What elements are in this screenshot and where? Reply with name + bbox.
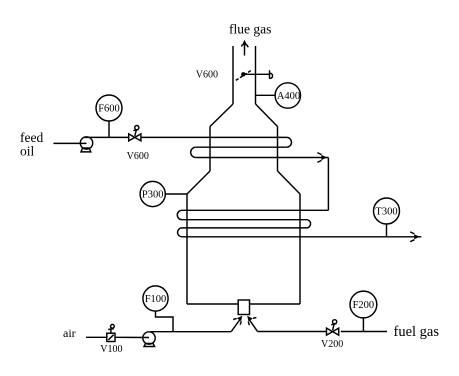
svg-text:flue gas: flue gas: [229, 22, 271, 37]
valve V600 handle: [135, 126, 139, 130]
instrument F200 stem: [362, 318, 364, 332]
flue gas arrow: [244, 42, 246, 56]
svg-text:V200: V200: [321, 339, 343, 350]
valve V600 body: [129, 134, 141, 141]
coil pass 2 left U-bend: [191, 147, 196, 157]
instrument A400 stem: [256, 94, 276, 96]
coil pass 4 left U-bend: [177, 210, 182, 219]
valve V200 handle: [333, 320, 337, 324]
damper V600 handle: [270, 70, 273, 78]
svg-text:P300: P300: [142, 190, 164, 201]
coil pass 5 right U-bend: [307, 220, 311, 228]
coil pass 3 arrow: [321, 155, 327, 160]
furnace lower shoulder left: [187, 171, 210, 194]
pump feed oil base: [81, 148, 91, 152]
blower base: [144, 344, 155, 347]
coil pass 6: [182, 227, 307, 229]
instrument A400: [275, 83, 300, 108]
air inlet wire: [86, 336, 107, 338]
blower: [143, 332, 155, 344]
damper V600 blade (dashed): [236, 71, 251, 81]
coil pass 2: [196, 146, 287, 148]
feed wire valve to coil: [141, 136, 287, 138]
svg-text:oil: oil: [20, 144, 35, 159]
feed wire pump outlet to valve V600: [84, 136, 129, 138]
svg-text:V600: V600: [196, 69, 218, 80]
damper V600 pivot dot: [241, 72, 245, 76]
svg-text:V600: V600: [127, 151, 149, 162]
instrument F100 stem: [156, 311, 174, 332]
instrument P300: [140, 181, 165, 206]
valve V600 stem: [135, 130, 137, 136]
svg-text:F100: F100: [145, 294, 167, 305]
furnace stack right wall: [255, 46, 257, 104]
instrument F600 stem: [108, 121, 110, 137]
svg-text:F600: F600: [98, 104, 120, 115]
furnace convection section left wall: [209, 127, 211, 172]
valve V200 stem: [333, 324, 335, 330]
wire crossover down: [327, 158, 329, 211]
coil pass 3: [196, 157, 329, 159]
fuel gas inlet wire: [341, 331, 387, 333]
valve V200 body: [327, 328, 339, 335]
fuel wire valve to burner: [257, 331, 326, 333]
air wire valve to blower: [115, 336, 149, 338]
valve V100 handle: [111, 324, 115, 328]
instrument F100: [143, 286, 168, 311]
furnace lower shoulder right: [278, 171, 301, 194]
furnace stack left wall: [232, 46, 234, 104]
furnace convection section right wall: [277, 127, 279, 172]
burner air arrow: [231, 320, 240, 332]
pump feed oil: [80, 137, 92, 149]
coil pass 5: [182, 219, 307, 221]
damper V600 shaft: [243, 73, 269, 75]
furnace radiant section left wall: [186, 194, 188, 304]
furnace radiant section right wall: [299, 194, 301, 304]
furnace upper shoulder left: [210, 104, 233, 127]
instrument P300 stem: [165, 193, 187, 195]
furnace upper shoulder right: [256, 104, 278, 127]
instrument T300 stem: [386, 224, 388, 237]
coil pass 6 left U-bend: [178, 228, 182, 237]
coil pass 4: [182, 209, 328, 211]
valve V100 stem: [110, 328, 112, 333]
valve V100 body: [107, 333, 115, 341]
svg-text:A400: A400: [277, 91, 300, 102]
instrument F600: [96, 95, 122, 121]
svg-text:F200: F200: [353, 300, 375, 311]
feed oil inlet wire: [54, 142, 87, 144]
instrument T300: [374, 198, 400, 224]
furnace bottom right segment: [250, 303, 301, 305]
product outlet wire: [182, 236, 421, 238]
air wire blower to burner: [151, 331, 232, 333]
svg-text:V100: V100: [100, 344, 122, 355]
furnace bottom left segment: [187, 303, 238, 305]
instrument F200: [350, 291, 377, 318]
svg-text:air: air: [63, 326, 76, 340]
svg-text:T300: T300: [375, 207, 397, 218]
product outlet arrow: [414, 234, 420, 239]
coil pass 1 right U-bend: [287, 137, 292, 147]
burner: [238, 300, 249, 315]
svg-text:fuel gas: fuel gas: [394, 324, 440, 340]
burner fuel arrow: [249, 320, 257, 332]
